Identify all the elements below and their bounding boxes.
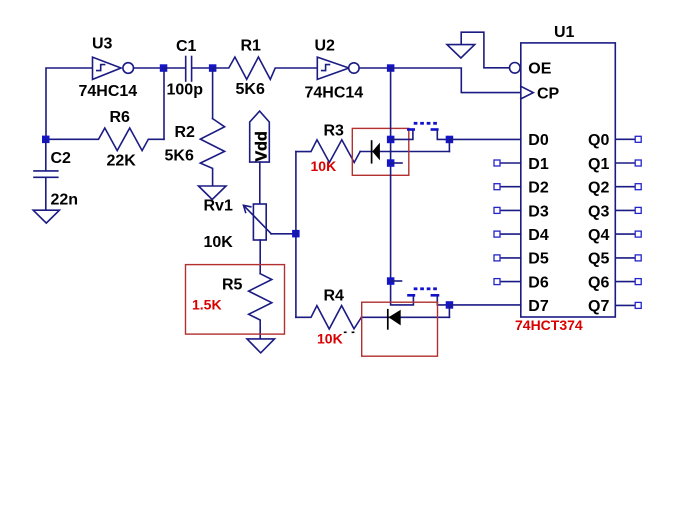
highlight box around D2/SW2 [362,302,438,356]
diode D1 cathode bar [371,140,373,163]
pushbutton SW2 left contact [407,294,415,297]
wire: R4 through diode D2 to node J drop [361,316,449,318]
wire: C1 right plate to node B [192,67,212,69]
resistor R1 [213,57,318,79]
pin Q6 stub wire [615,281,635,283]
resistor R4 [296,306,362,329]
wire: R3 through diode D1 to node G drop [360,151,449,153]
pin D4 stub wire [500,233,521,235]
svg-text:D2: D2 [528,180,549,197]
capacitor C1 plates [186,57,192,82]
ground symbol (R2) [199,186,227,200]
svg-text:74HC14: 74HC14 [305,85,364,102]
stub wire at node I [391,280,402,282]
CP clock caret [521,86,534,99]
node B junction [209,64,217,72]
wire: U2 output to node C [359,67,390,69]
svg-text:R4: R4 [324,288,345,305]
svg-text:Q2: Q2 [588,180,609,197]
svg-text:CP: CP [537,85,560,102]
pin D4 terminal [494,231,500,237]
pin D2 stub wire [500,186,521,188]
inverter U3 output bubble [123,63,134,74]
svg-text:Q0: Q0 [588,132,609,149]
wire: node D to C2 top plate [45,139,47,170]
svg-text:D4: D4 [528,227,549,244]
node G junction [446,136,454,144]
svg-text:Q4: Q4 [588,227,609,244]
wire: SW2 right contact to node J [437,297,449,305]
pin Q4 terminal [635,231,641,237]
inverter U2 output bubble [349,63,359,73]
pin Q2 stub wire [615,186,635,188]
svg-text:1.5K: 1.5K [192,297,222,313]
wire: node J to pin D7 [449,304,520,306]
svg-text:D5: D5 [528,251,549,268]
svg-text:Q5: Q5 [588,251,609,268]
svg-text:D3: D3 [528,203,549,220]
svg-text:R5: R5 [222,277,243,294]
wire: wiper to node E [271,233,296,235]
power flag Vdd [250,111,270,162]
pin Q4 stub wire [615,233,635,235]
inverter U3 triangle with schmitt glyph [93,57,122,79]
wire: node B down to R2 [212,68,214,119]
svg-text:D6: D6 [528,274,549,291]
pin D1 terminal [494,160,500,166]
diode D2 body [389,310,401,326]
pushbutton SW1 left contact [407,128,415,131]
wire: node F to SW1 left contact post [391,131,413,140]
svg-text:C2: C2 [51,150,72,167]
svg-text:OE: OE [528,61,551,78]
svg-text:Vdd: Vdd [254,131,271,161]
svg-text:C1: C1 [176,38,197,55]
pin Q1 stub wire [615,162,635,164]
node H junction (stub) [387,159,395,167]
pin Q3 stub wire [615,209,635,211]
svg-text:R3: R3 [324,123,345,140]
inverter U2 triangle with schmitt glyph [317,57,349,79]
potentiometer Rv1 wiper arrow [244,205,272,234]
pin Q0 stub wire [615,138,635,140]
ground symbol (R5) [247,339,275,353]
IC U1 74HCT374 body [521,43,616,317]
pushbutton SW1 actuator (dashed) [414,122,437,125]
pin D5 stub wire [500,257,521,259]
svg-text:74HC14: 74HC14 [79,83,138,100]
pin Q7 stub wire [615,304,635,306]
capacitor C2 plates [34,171,58,177]
svg-text:D0: D0 [528,132,549,149]
pushbutton SW1 right contact [431,128,439,131]
pin D2 terminal [494,184,500,190]
node C junction [387,64,395,72]
pin D3 terminal [494,207,500,213]
pin Q5 terminal [635,255,641,261]
resistor R2 [200,119,224,186]
node J junction [446,301,454,309]
ground flag at OE [447,45,475,58]
resistor R6 [46,128,164,151]
potentiometer Rv1 body [253,204,266,240]
wire: SW1 right contact to node G [437,131,449,140]
svg-text:R2: R2 [175,124,196,141]
ground symbol (C2) [33,210,59,223]
stub wire at node H [391,162,402,164]
svg-text:74HCT374: 74HCT374 [515,317,583,333]
wire: left rail from U3 input down to node D [46,68,93,139]
svg-text:22K: 22K [107,153,137,170]
pin Q5 stub wire [615,257,635,259]
pushbutton SW2 actuator (dashed) [414,287,437,290]
svg-text:10K: 10K [317,331,343,347]
svg-text:10K: 10K [311,158,337,174]
pin Q3 terminal [635,207,641,213]
wire: C2 bottom plate to ground [45,178,47,210]
wire: node C right then down to CP pin [391,68,521,93]
diode D1 body [372,143,380,161]
svg-text:U1: U1 [554,24,575,41]
wire: node J down to diode row [448,305,450,317]
wire: potentiometer to R5 [259,240,261,274]
wire: node A down to R6 right lead [163,68,165,139]
svg-text:22n: 22n [51,192,79,209]
resistor R5 [249,274,272,339]
wire: node G to pin D0 [449,138,520,140]
pushbutton SW2 right contact [431,294,440,297]
svg-text:Q1: Q1 [588,156,609,173]
svg-text:Q3: Q3 [588,203,609,220]
wire: node A to C1 left plate [164,67,186,69]
svg-text:D1: D1 [528,156,549,173]
svg-text:R6: R6 [110,109,131,126]
OE pin bubble [510,63,521,74]
pin D5 terminal [494,255,500,261]
svg-text:D7: D7 [528,298,549,315]
pin Q1 terminal [635,160,641,166]
pin D1 stub wire [500,162,521,164]
resistor R3 [296,140,360,163]
svg-text:Q6: Q6 [588,274,609,291]
node D junction [42,136,50,144]
node E junction [292,230,300,238]
pin Q2 terminal [635,184,641,190]
svg-text:U3: U3 [92,36,113,53]
wire: R3/R4 branch rail [295,152,297,318]
wire: OE flag step to OE bubble [461,32,509,68]
wire: main rail from node C down to SW2 left contact [391,68,414,305]
svg-text:U2: U2 [315,38,336,55]
svg-text:5K6: 5K6 [236,81,265,98]
pin Q7 terminal [635,302,641,308]
pin D6 terminal [494,279,500,285]
wire: Vdd flag to potentiometer [259,162,261,204]
pin Q6 terminal [635,279,641,285]
highlight box around D1/SW1 [352,128,409,175]
svg-text:Rv1: Rv1 [204,198,233,215]
highlight box around R5 [186,265,285,335]
node I junction (stub, SW2) [387,277,395,285]
svg-text:100p: 100p [167,82,204,99]
wire: U3 output to node A [134,67,164,69]
node A junction [160,64,168,72]
svg-text:Q7: Q7 [588,298,609,315]
svg-text:5K6: 5K6 [165,148,194,165]
wire: node G down to diode row [448,139,450,151]
svg-text:10K: 10K [204,234,234,251]
dots after R4 [344,332,355,334]
pin D6 stub wire [500,281,521,283]
svg-text:R1: R1 [241,38,262,55]
pin Q0 terminal [635,136,641,142]
diode D2 cathode bar [387,309,389,330]
node F junction (SW1 left) [387,136,395,144]
pin D3 stub wire [500,209,521,211]
